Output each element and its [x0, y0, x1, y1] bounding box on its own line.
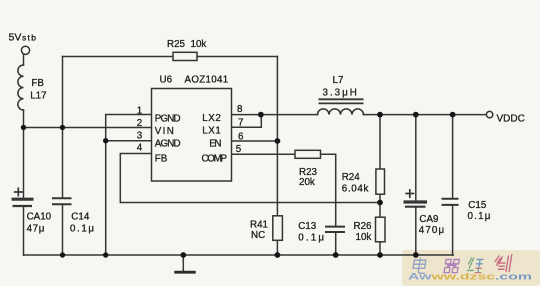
svg-text:47μ: 47μ: [27, 224, 45, 235]
svg-text:L17: L17: [30, 91, 46, 102]
svg-text:2: 2: [137, 118, 142, 129]
svg-text:L7: L7: [333, 75, 344, 86]
svg-text:7: 7: [238, 117, 243, 128]
svg-text:R41: R41: [250, 220, 268, 231]
svg-text:5: 5: [236, 144, 242, 155]
svg-text:FB: FB: [155, 154, 168, 165]
svg-text:AGND: AGND: [155, 139, 181, 150]
svg-text:CA9: CA9: [419, 214, 438, 225]
svg-text:8: 8: [237, 104, 243, 115]
svg-text:6: 6: [238, 131, 244, 142]
svg-text:C14: C14: [71, 212, 90, 223]
svg-text:LX1: LX1: [202, 126, 221, 137]
svg-text:EN: EN: [209, 139, 221, 150]
svg-text:R25: R25: [167, 39, 186, 50]
svg-text:R26: R26: [354, 221, 373, 232]
svg-text:VDDC: VDDC: [497, 114, 525, 125]
svg-text:0.1μ: 0.1μ: [468, 211, 492, 222]
svg-text:C15: C15: [468, 200, 487, 211]
svg-text:1: 1: [137, 105, 142, 116]
svg-text:470μ: 470μ: [419, 225, 445, 236]
svg-text:COMP: COMP: [202, 154, 228, 165]
svg-text:U6: U6: [160, 75, 173, 86]
svg-text:VIN: VIN: [155, 126, 174, 137]
svg-text:20k: 20k: [299, 177, 315, 188]
svg-text:PGND: PGND: [155, 114, 181, 125]
svg-text:10k: 10k: [356, 232, 372, 243]
svg-text:5V: 5V: [9, 32, 22, 44]
svg-text:FB: FB: [31, 78, 44, 89]
svg-text:R24: R24: [342, 172, 361, 183]
svg-text:4: 4: [137, 143, 143, 154]
svg-text:LX2: LX2: [202, 113, 221, 124]
svg-text:AOZ1041: AOZ1041: [185, 75, 229, 86]
svg-text:stb: stb: [22, 33, 37, 43]
svg-text:NC: NC: [251, 230, 265, 241]
svg-text:C13: C13: [298, 221, 317, 232]
svg-text:0.1μ: 0.1μ: [298, 233, 326, 244]
svg-text:3.3μH: 3.3μH: [323, 88, 359, 99]
svg-text:10k: 10k: [191, 39, 207, 50]
svg-text:Awww.dzsc.com: Awww.dzsc.com: [408, 272, 532, 282]
svg-text:6.04k: 6.04k: [342, 184, 369, 195]
svg-text:0.1μ: 0.1μ: [70, 224, 96, 235]
svg-text:3: 3: [137, 131, 143, 142]
svg-text:CA10: CA10: [27, 212, 52, 223]
